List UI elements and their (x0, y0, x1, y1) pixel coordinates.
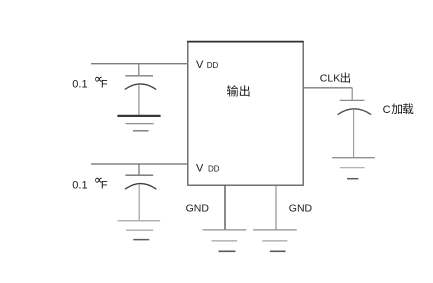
ground (below C3) (332, 158, 375, 179)
svg-text:F: F (101, 180, 108, 192)
wire VDD top-left (91, 63, 188, 65)
ground (bottom right pin) (253, 230, 297, 251)
wire GND pin 1 (bottom of U1, left) (224, 185, 226, 229)
label 0.1 uF (bottom) (72, 178, 108, 192)
capacitor C3 (load, right) (338, 88, 372, 157)
svg-text:DD: DD (207, 61, 219, 70)
svg-text:GND: GND (289, 202, 313, 214)
pin label VDD (top) (196, 59, 218, 71)
wire CLK output (303, 87, 352, 89)
svg-text:0.1: 0.1 (72, 180, 87, 192)
svg-text:V: V (196, 59, 204, 71)
svg-text:V: V (196, 163, 204, 175)
ground (below C2) (118, 221, 161, 240)
label 0.1 uF (top) (72, 77, 108, 91)
IC U1 (oscillator block) (187, 42, 303, 186)
svg-text:C: C (383, 104, 391, 116)
svg-text:0.1: 0.1 (72, 79, 87, 91)
ground (below C1) (117, 116, 160, 131)
wire GND pin 2 (bottom of U1, right) (275, 185, 277, 229)
pin label VDD (bottom) (196, 163, 220, 175)
label 输出 (output) inside U1 (227, 85, 250, 96)
svg-text:DD: DD (208, 165, 220, 174)
capacitor C1 (top-left decoupling) (125, 64, 156, 115)
label C加载 (load capacitance) (383, 103, 414, 116)
label CLK出 (320, 72, 350, 84)
capacitor C2 (bottom-left decoupling) (125, 164, 156, 220)
svg-text:GND: GND (186, 202, 210, 214)
wire VDD bottom-left (91, 163, 188, 165)
svg-text:F: F (101, 79, 108, 91)
svg-text:CLK: CLK (320, 73, 340, 85)
ground (bottom left pin) (203, 230, 247, 251)
